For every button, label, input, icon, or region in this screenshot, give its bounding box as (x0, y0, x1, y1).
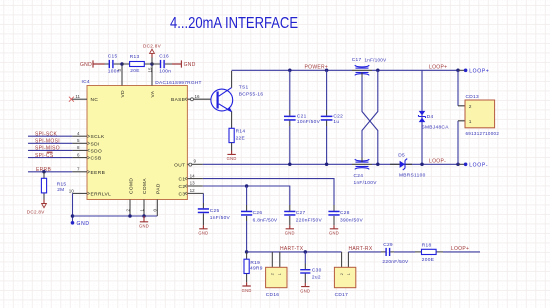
svg-text:2M: 2M (57, 187, 64, 193)
stub below C17 (361, 72, 363, 77)
svg-text:49R9: 49R9 (250, 266, 263, 272)
svg-text:1nF/50V: 1nF/50V (210, 215, 231, 221)
wire SPI-MISO (28, 149, 72, 151)
junction COMA (142, 214, 146, 218)
connector CD13 691312710002 (458, 106, 465, 121)
svg-text:TS1: TS1 (239, 84, 249, 90)
svg-text:12: 12 (190, 188, 196, 193)
svg-text:DC2.8V: DC2.8V (143, 43, 162, 48)
svg-text:1: 1 (469, 119, 472, 125)
svg-text:R15: R15 (57, 181, 67, 187)
capacitor C21 (289, 70, 291, 110)
pin stub COMA (143, 200, 145, 217)
junction ERRB/R15 (42, 170, 46, 174)
junction C24 right (376, 163, 380, 167)
junction ERRLVL wire / bottom wire (71, 214, 75, 218)
svg-text:R13: R13 (130, 54, 140, 60)
svg-text:BCP55-16: BCP55-16 (239, 91, 264, 97)
svg-text:GND: GND (329, 230, 339, 235)
junction C22 bottom (325, 163, 329, 167)
svg-text:DAC161S997RGHT: DAC161S997RGHT (155, 80, 201, 86)
svg-text:GND: GND (184, 62, 196, 68)
pin stub SDO (72, 149, 87, 151)
junction VD node (120, 62, 124, 66)
svg-text:C16: C16 (159, 54, 169, 60)
capacitor C16 (152, 63, 172, 65)
pin stub VD (121, 64, 123, 86)
svg-text:NC: NC (91, 97, 99, 103)
svg-text:R18: R18 (422, 242, 432, 248)
svg-text:IC4: IC4 (82, 79, 90, 85)
pin stub EERB (72, 171, 87, 173)
junction C21 top (288, 69, 292, 73)
wire ERRB (28, 171, 72, 173)
capacitor C29 (381, 251, 394, 253)
junction C17 right (376, 69, 380, 73)
svg-text:2: 2 (340, 273, 344, 275)
diode D5 MBRS1100 (390, 163, 412, 165)
svg-text:14: 14 (190, 173, 196, 178)
svg-text:C1: C1 (178, 177, 185, 183)
svg-text:HART-TX: HART-TX (280, 246, 304, 252)
svg-text:691312710002: 691312710002 (466, 131, 500, 136)
svg-text:DC2.8V: DC2.8V (27, 210, 46, 215)
wire ERRLVL to GND flag (73, 192, 88, 194)
junction C26 top (245, 184, 249, 188)
svg-text:C25: C25 (210, 208, 220, 214)
pin stub CSB (72, 157, 87, 159)
svg-text:C29: C29 (383, 242, 393, 248)
feedthrough capacitor C24 (356, 161, 369, 163)
ground right (172, 60, 181, 67)
svg-text:VA: VA (150, 90, 156, 97)
capacitor C22 (326, 70, 328, 110)
connector CD16 (266, 267, 287, 287)
svg-text:SMBJ48CA: SMBJ48CA (422, 124, 450, 130)
svg-text:10: 10 (69, 189, 75, 194)
capacitor C15 (105, 63, 123, 65)
svg-text:HART-RX: HART-RX (349, 246, 373, 252)
svg-text:CSB: CSB (91, 156, 102, 162)
svg-text:SCLK: SCLK (91, 134, 106, 140)
transistor TS1 BCP55-16 (211, 89, 233, 111)
svg-text:LOOP+: LOOP+ (469, 69, 489, 75)
svg-text:C21: C21 (297, 113, 307, 119)
svg-text:GND: GND (139, 223, 149, 228)
ground under R19 (246, 274, 248, 283)
ground under C27 (289, 221, 291, 225)
svg-text:2: 2 (271, 273, 275, 275)
wire to LOOP+ (443, 251, 480, 253)
svg-text:2: 2 (469, 104, 472, 110)
pin stub SDI (72, 142, 87, 144)
junction C22 top (325, 69, 329, 73)
junction CD13 bottom (456, 163, 460, 167)
svg-text:220nF/50V: 220nF/50V (382, 259, 409, 265)
wire emitter down (231, 112, 233, 129)
svg-text:C30: C30 (312, 268, 322, 274)
svg-text:4...20mA INTERFACE: 4...20mA INTERFACE (170, 15, 298, 32)
junction C30 top (304, 250, 308, 254)
pin stub CD17 pin1 (347, 252, 349, 267)
svg-text:CD16: CD16 (266, 292, 279, 298)
wire C1 to C28 (203, 179, 334, 205)
IC U-block IC4 DAC161S997RGHT body (87, 86, 187, 200)
net flag LOOP- (458, 163, 464, 165)
svg-text:LOOP-: LOOP- (429, 158, 446, 164)
svg-text:220nF/50V: 220nF/50V (296, 217, 323, 223)
wire HART-RX (348, 251, 381, 253)
svg-text:D5: D5 (398, 152, 405, 158)
crossing wires between C17 and C24 (362, 77, 378, 164)
pin stub CD16 pin1 (279, 252, 281, 267)
svg-text:C26: C26 (253, 210, 263, 216)
svg-text:390n/50V: 390n/50V (340, 217, 363, 223)
svg-text:16: 16 (195, 94, 201, 99)
svg-text:SPI-CS: SPI-CS (35, 153, 54, 159)
svg-text:ERRLVL: ERRLVL (91, 191, 112, 197)
wire SPI-SCK (28, 135, 72, 137)
svg-text:COMD: COMD (128, 178, 134, 194)
wire HART-TX (247, 251, 342, 253)
svg-text:13: 13 (190, 181, 196, 186)
capacitor C26 (246, 186, 248, 205)
resistor R18 (415, 251, 443, 253)
svg-text:OUT: OUT (174, 162, 185, 168)
wire collector up (231, 71, 233, 88)
capacitor C25 (202, 203, 204, 218)
connector CD17 (334, 267, 355, 287)
resistor R19 (246, 252, 248, 259)
svg-text:R19: R19 (250, 260, 260, 266)
svg-text:GND: GND (300, 288, 310, 293)
svg-text:100n: 100n (108, 69, 120, 75)
wire C29 to R18 (394, 251, 415, 253)
ground under C25 (202, 218, 204, 225)
svg-text:CD17: CD17 (335, 292, 348, 298)
svg-text:LOOP+: LOOP+ (451, 246, 469, 252)
pin stub NC with no-connect X (71, 98, 87, 100)
feedthrough capacitor C17 (356, 67, 369, 69)
svg-text:SDI: SDI (91, 141, 100, 147)
ground under C30 (304, 279, 306, 283)
svg-text:GND: GND (80, 62, 92, 68)
svg-text:C27: C27 (296, 210, 306, 216)
svg-text:LOOP-: LOOP- (469, 163, 488, 169)
svg-text:C17: C17 (352, 57, 362, 63)
wire SPI-MOSI (28, 142, 72, 144)
svg-text:1: 1 (347, 273, 351, 275)
resistor R13 (122, 63, 152, 65)
pin direction marks (87, 98, 187, 195)
pin stub CD16 pin2 (271, 252, 273, 267)
wire CD13 pin2 drop (457, 70, 459, 106)
svg-text:GND: GND (242, 288, 252, 293)
svg-text:GND: GND (77, 221, 90, 227)
supply DC2.8V (up) (151, 58, 153, 65)
svg-text:COMA: COMA (142, 178, 148, 194)
svg-text:SDO: SDO (91, 148, 103, 154)
svg-text:BASE: BASE (171, 97, 185, 103)
svg-text:LOOP+: LOOP+ (429, 64, 447, 70)
svg-text:GND: GND (227, 156, 237, 161)
net flag LOOP+ (458, 69, 464, 71)
stub above C24 (361, 158, 363, 163)
svg-text:6.8nF/50V: 6.8nF/50V (253, 217, 278, 223)
svg-text:20E: 20E (130, 68, 139, 74)
svg-text:C15: C15 (108, 54, 118, 60)
svg-text:200E: 200E (422, 257, 434, 263)
net flag GND (blue dot) (71, 221, 75, 225)
ground under COMA (140, 216, 148, 222)
svg-text:22E: 22E (236, 136, 245, 142)
junction CD13 top (456, 69, 460, 73)
svg-text:CD13: CD13 (466, 94, 479, 100)
svg-text:GND: GND (285, 230, 295, 235)
pin stub VA (151, 64, 153, 86)
capacitor C30 (304, 252, 306, 264)
junction VA node (150, 62, 154, 66)
junction C21 bottom (288, 163, 292, 167)
ground under R14 (231, 143, 233, 151)
resistor R14 (229, 128, 234, 142)
svg-text:MBRS1100: MBRS1100 (399, 173, 426, 179)
wire CD13 pin1 drop (457, 121, 459, 165)
capacitor C27 (289, 205, 291, 221)
svg-text:11: 11 (75, 94, 80, 99)
wire POWER+ rail (232, 69, 352, 71)
svg-text:1: 1 (278, 273, 282, 275)
svg-text:EERB: EERB (91, 170, 106, 176)
svg-text:PAD: PAD (155, 183, 161, 194)
svg-text:100n: 100n (159, 69, 171, 75)
svg-text:GND: GND (198, 230, 208, 235)
wire C3 to C25 (202, 193, 204, 203)
pin stub PAD (156, 200, 158, 217)
junction HART-TX node (245, 250, 249, 254)
svg-text:C2: C2 (178, 184, 185, 190)
TVS diode D4 SMBJ48CA (421, 70, 423, 164)
svg-text:1nF/100V: 1nF/100V (354, 180, 378, 186)
wire SPI-CS (28, 157, 72, 159)
pin stub COMD (129, 200, 131, 217)
svg-text:SPI-MOSI: SPI-MOSI (35, 139, 60, 145)
wire BASE to transistor (187, 98, 211, 100)
pin stub SCLK (72, 135, 87, 137)
supply DC2.8V (down) (43, 200, 45, 204)
svg-text:C3: C3 (178, 191, 185, 197)
ground under C28 (333, 221, 335, 225)
junction COMD (128, 214, 132, 218)
junction D4 bottom (420, 163, 424, 167)
top decoupling row: ground left (93, 60, 105, 67)
svg-text:SPI-SCK: SPI-SCK (35, 131, 57, 137)
svg-text:R14: R14 (236, 129, 246, 135)
capacitor C28 (333, 205, 335, 221)
wire C2 to C27 (203, 186, 290, 205)
svg-text:C22: C22 (333, 113, 343, 119)
svg-text:2u2: 2u2 (312, 275, 321, 281)
svg-text:1nF/100V: 1nF/100V (365, 57, 387, 62)
svg-text:VD: VD (120, 90, 126, 98)
svg-text:POWER+: POWER+ (305, 64, 329, 70)
svg-text:1u: 1u (333, 119, 339, 125)
svg-text:D4: D4 (427, 114, 434, 120)
resistor R15 (43, 172, 45, 200)
svg-text:C28: C28 (340, 210, 350, 216)
wire bottom common (73, 215, 158, 217)
pin stub CD17 pin2 (341, 252, 343, 267)
svg-text:10nF/50V: 10nF/50V (297, 119, 321, 125)
wire OUT rail / LOOP- (187, 163, 202, 165)
svg-text:SPI-MISO: SPI-MISO (35, 146, 60, 152)
svg-text:C24: C24 (354, 173, 364, 179)
